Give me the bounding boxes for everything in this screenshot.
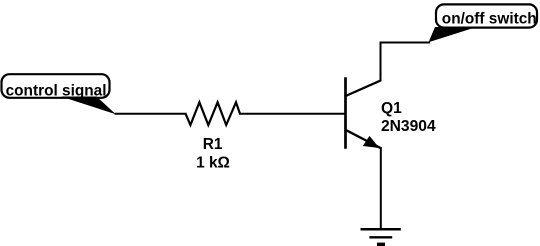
callout: control signal	[2, 74, 116, 114]
resistor R1	[186, 102, 240, 125]
svg-text:2N3904: 2N3904	[381, 118, 436, 135]
transistor Q1 collector lead	[345, 80, 382, 96]
ground	[361, 229, 401, 244]
svg-text:Q1: Q1	[381, 100, 402, 117]
wire: emitter to ground	[380, 147, 382, 229]
svg-text:R1: R1	[203, 136, 223, 153]
callout: on/off switch	[429, 4, 538, 42]
wire: control signal to R1	[115, 113, 187, 115]
svg-text:1 kΩ: 1 kΩ	[196, 154, 230, 171]
label 1 kΩ	[196, 154, 230, 171]
label Q1	[381, 100, 402, 117]
svg-text:control signal: control signal	[6, 83, 107, 100]
transistor Q1 base bar	[344, 77, 347, 148]
wire: R1 to base	[239, 113, 345, 115]
transistor Q1 emitter lead with arrow	[345, 129, 381, 148]
svg-text:on/off switch: on/off switch	[442, 11, 537, 28]
label R1	[203, 136, 223, 153]
wire: collector to switch	[381, 43, 431, 82]
label 2N3904	[381, 118, 436, 135]
